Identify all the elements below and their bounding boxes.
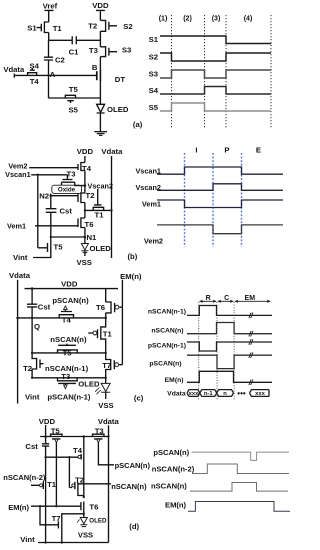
svg-text:C: C (224, 295, 229, 302)
svg-text:T7: T7 (52, 514, 61, 523)
OLED diode (a) (97, 104, 105, 131)
waveform nSCAN(n-1) (187, 306, 272, 316)
phase dotted line 1 (172, 15, 272, 128)
blue dotted line P start (212, 153, 214, 247)
T5 row wire (49, 97, 101, 99)
transistor T4 (28, 69, 37, 76)
Vdata terminal tick (13, 74, 15, 78)
waveform nSCAN(n) (d) (190, 483, 288, 492)
svg-text:OLED: OLED (107, 105, 129, 114)
waveform pSCAN(n) (187, 355, 272, 368)
svg-text:E: E (256, 146, 261, 155)
waveform Vscan1 (157, 167, 283, 174)
svg-text:VDD: VDD (39, 417, 56, 426)
junction bottom wire T1 (44, 541, 46, 543)
junction T1 left (84, 209, 86, 211)
svg-text:T1: T1 (53, 24, 63, 33)
transistor T2 (c) (32, 353, 43, 378)
N1 row wire (51, 236, 85, 238)
left branch Q to T5 row (31, 318, 33, 353)
junction T5 row right (105, 352, 107, 354)
svg-text:Cst: Cst (25, 442, 38, 451)
junction bottom wire T7 (61, 541, 63, 543)
svg-text:Cst: Cst (60, 206, 73, 215)
wire OLED to VSS (c) (105, 392, 107, 399)
ground symbol (94, 132, 107, 136)
drive transistor DT (99, 70, 101, 81)
svg-text:nSCAN(n): nSCAN(n) (151, 482, 187, 491)
waveform S3 (160, 70, 271, 78)
waveform EM(n) (d) (188, 502, 290, 512)
labels circuit (a) (3, 1, 142, 129)
PMOS bubble T1 (d) (40, 484, 43, 487)
EM(n) rail (c) (121, 280, 123, 365)
svg-text:VDD: VDD (61, 279, 78, 288)
transistor T7 (c) (106, 353, 123, 378)
svg-text:C1: C1 (69, 47, 80, 56)
svg-text:VDD: VDD (77, 147, 94, 156)
OLED light arrows (c) (95, 388, 101, 395)
transistor T5 (d) (51, 434, 63, 439)
svg-text:EM(n): EM(n) (120, 272, 142, 281)
svg-text:Vscan2: Vscan2 (88, 181, 114, 190)
wire OLED top (c) (105, 378, 107, 384)
wire T4 to Vscan2 node (84, 171, 86, 194)
dotted line EM start (233, 302, 235, 401)
break squiggle EM(n) (249, 380, 253, 386)
svg-text:VSS: VSS (77, 258, 92, 267)
svg-text:I: I (195, 146, 197, 155)
transistor T1 (d) (31, 482, 46, 543)
transistor T3 (100, 40, 117, 56)
wire T1 row to T6 (84, 210, 86, 218)
svg-text:nSCAN(n): nSCAN(n) (50, 335, 87, 344)
break squiggle nSCAN(n) (249, 331, 253, 337)
svg-text:Vdata: Vdata (9, 271, 31, 280)
wire N2 to Cst (50, 196, 52, 209)
break squiggle nSCAN(n-1) (249, 313, 253, 319)
phase dotted line 4 (270, 15, 272, 128)
transistor T6 (c) (106, 289, 123, 318)
junction top wire Vdata (107, 435, 109, 437)
svg-text:(c): (c) (134, 394, 144, 403)
wire node B (99, 57, 101, 70)
transistor T4 (c) (59, 310, 73, 318)
svg-text:Vref: Vref (43, 1, 58, 10)
OLED diode (b) (81, 244, 88, 253)
svg-text:EM: EM (245, 295, 256, 302)
svg-text:T2: T2 (23, 364, 32, 373)
svg-text:T4: T4 (30, 77, 40, 86)
PMOS triangle bubble T3 (d) (97, 439, 100, 442)
PMOS triangle bubble T4 (c) (64, 306, 68, 310)
svg-text:T5: T5 (54, 243, 64, 252)
EM(n) row wire (31, 505, 81, 507)
svg-text:VSS: VSS (78, 530, 93, 539)
junction Cst-Q (31, 317, 33, 319)
transistor T2 (b) (51, 193, 85, 203)
svg-text:T2: T2 (86, 191, 95, 200)
waveform S2 (160, 53, 271, 61)
svg-text:N1: N1 (87, 233, 98, 242)
junction Q-right branch (104, 317, 107, 320)
junction VDD-Cst (c) (31, 287, 34, 290)
svg-text:T3: T3 (95, 426, 104, 435)
svg-text:xxx: xxx (189, 391, 199, 397)
PMOS bubble T7 (c) (115, 363, 119, 367)
svg-text:(b): (b) (128, 252, 138, 261)
bottom Vint wire (38, 542, 109, 544)
svg-text:T2: T2 (75, 476, 84, 485)
svg-text:S4: S4 (29, 61, 39, 70)
svg-text:nSCAN(n): nSCAN(n) (111, 482, 147, 491)
svg-text:(2): (2) (183, 16, 192, 23)
svg-text:T5: T5 (63, 348, 73, 357)
capacitor C2 (44, 57, 53, 60)
VDD power terminal (a) (96, 10, 105, 20)
wire VDD line to T1 (45, 457, 47, 481)
junction EM row T7 (39, 505, 41, 507)
svg-text:Vem2: Vem2 (144, 237, 163, 246)
wire C1 to node Y (76, 39, 100, 41)
junction T5 row left (31, 352, 33, 354)
svg-text:Vdata: Vdata (98, 417, 120, 426)
T4 gate to T2 gate vertical (69, 457, 72, 487)
svg-text:Oxide: Oxide (58, 186, 76, 193)
junction dots (d) (39, 435, 110, 544)
svg-text:S3: S3 (149, 70, 158, 79)
svg-text:T2: T2 (88, 22, 97, 31)
T1 row wire (85, 209, 112, 211)
svg-text:EM(n): EM(n) (165, 377, 184, 384)
node X wire to C1 (49, 39, 72, 41)
waveform nSCAN(n) (187, 323, 272, 334)
T5 row wire (c) (32, 352, 106, 354)
Vref power terminal (45, 10, 54, 22)
transistor T3 (d) (93, 434, 105, 439)
svg-text:T4: T4 (73, 446, 83, 455)
junction OLED top (d) (83, 513, 85, 515)
junction N1 (84, 236, 87, 239)
PMOS triangle bubble T5 (d) (55, 439, 58, 442)
svg-text:T1: T1 (47, 480, 57, 489)
junction T3 row right OLED (105, 377, 107, 379)
PMOS bubble T2 (d) (72, 484, 75, 487)
junction T4 gate (68, 456, 70, 458)
svg-text:S2: S2 (123, 22, 132, 31)
svg-text:Vem1: Vem1 (142, 200, 161, 209)
wire Cst to N1 row (50, 212, 52, 237)
junction dots (c) (16, 287, 107, 379)
svg-text:T7: T7 (102, 361, 111, 370)
waveform EM(n) (c) (187, 371, 272, 382)
svg-text:OLED: OLED (78, 380, 100, 389)
svg-text:Vdata: Vdata (101, 147, 123, 156)
junction Vdata-Q (16, 317, 19, 320)
svg-text:VDD: VDD (92, 1, 109, 10)
Vscan1 vertical branch to T5 gate (38, 175, 48, 248)
svg-text:T4: T4 (82, 164, 92, 173)
transistor T1 (c) (88, 318, 106, 353)
wire OLED to VSS (b) (84, 251, 86, 257)
transistor T2 (100, 20, 117, 40)
svg-text:EM(n): EM(n) (8, 503, 29, 512)
svg-text:A: A (50, 70, 56, 79)
svg-text:Q: Q (34, 322, 40, 331)
waveform pSCAN(n) (d) (192, 452, 289, 460)
junction T2 bottom (83, 496, 85, 498)
svg-text:Vem1: Vem1 (7, 222, 26, 231)
svg-text:S1: S1 (27, 23, 37, 32)
T7 gate branch (40, 506, 58, 525)
Q row wire (18, 317, 106, 319)
svg-text:T3: T3 (61, 372, 70, 381)
svg-text:(3): (3) (212, 16, 221, 23)
svg-text:nSCAN(n-2): nSCAN(n-2) (152, 464, 195, 473)
T3 gate wire to pSCAN(n) (98, 442, 114, 464)
transistor T6 (d) (81, 502, 84, 516)
svg-text:T6: T6 (85, 220, 94, 229)
junction N2 (50, 194, 53, 197)
junction dots (b) (37, 174, 113, 239)
transistor T5 (b) (48, 237, 51, 253)
svg-text:(1): (1) (159, 16, 168, 23)
svg-text:nSCAN(n): nSCAN(n) (151, 328, 183, 335)
junction EM row T5 gate (55, 505, 57, 507)
svg-text:Cst: Cst (38, 303, 51, 312)
svg-text:n-1: n-1 (204, 391, 213, 397)
waveform S4 (160, 87, 271, 95)
svg-text:T3: T3 (67, 170, 76, 179)
svg-text:S1: S1 (149, 35, 159, 44)
svg-text:pSCAN(n-1): pSCAN(n-1) (148, 343, 186, 350)
svg-text:•••: ••• (237, 389, 246, 398)
waveform Vem1 (157, 200, 283, 208)
svg-text:Vint: Vint (20, 535, 35, 544)
OLED diode (c) (95, 383, 110, 394)
dotted line C start (216, 302, 218, 401)
OLED light arrows (d) (77, 520, 80, 523)
svg-text:pSCAN(n): pSCAN(n) (52, 296, 89, 305)
svg-text:S5: S5 (68, 106, 78, 115)
arrow span EM (235, 300, 270, 302)
T5 gate wire down to EM row (55, 442, 57, 506)
junction T3 row left (31, 377, 33, 379)
svg-text:T1: T1 (95, 211, 105, 220)
node A junction dot (47, 74, 49, 76)
wire Cst to Q line (31, 307, 33, 318)
node A wire (14, 74, 97, 76)
svg-text:xxx: xxx (255, 391, 265, 397)
junction Vscan1 (37, 174, 39, 176)
blue dotted line E start (241, 153, 243, 247)
wire T6 to N1 (84, 228, 86, 244)
svg-text:n: n (223, 391, 227, 397)
blue dotted line I start (184, 153, 186, 247)
svg-text:(4): (4) (244, 16, 253, 23)
svg-text:VSS: VSS (98, 401, 113, 410)
transistor T5 (c) (58, 344, 78, 353)
waveform S1 (160, 36, 271, 44)
VDD rail (c) (25, 288, 119, 290)
junction Cst bottom row (44, 456, 46, 458)
svg-text:DT: DT (115, 75, 126, 84)
svg-text:Vint: Vint (13, 253, 28, 262)
svg-text:T6: T6 (96, 303, 105, 312)
svg-text:OLED: OLED (89, 518, 107, 525)
svg-text:nSCAN(n-2): nSCAN(n-2) (3, 473, 46, 482)
Vdata rail (d) (108, 425, 110, 542)
Vdata rail (c) (17, 280, 19, 404)
break squiggle pSCAN(n) (249, 352, 253, 358)
svg-text:pSCAN(n-1): pSCAN(n-1) (47, 392, 91, 401)
waveform Vscan2 (157, 184, 283, 191)
transistor T4 (d) (81, 437, 84, 498)
svg-text:S4: S4 (149, 86, 159, 95)
VDD wire (b) (84, 156, 86, 163)
svg-text:EM(n): EM(n) (165, 500, 187, 509)
junction T1 right Vdata (110, 209, 112, 211)
phase dotted line 2 (204, 15, 206, 128)
capacitor Cst (b) (46, 209, 57, 213)
capacitor C1 (72, 36, 76, 44)
svg-text:pSCAN(n): pSCAN(n) (153, 448, 189, 457)
Oxide annotation box (52, 185, 82, 193)
capacitor Cst (d) (42, 444, 49, 446)
svg-text:T4: T4 (62, 315, 72, 324)
svg-text:OLED: OLED (90, 244, 112, 253)
PMOS bubble T1 (c) (93, 331, 97, 335)
arrow span R (200, 300, 217, 302)
arrow span C (218, 300, 234, 302)
Vdata rail (b) (111, 156, 113, 258)
waveform nSCAN(n-2) (d) (192, 464, 289, 474)
transistor T5 (65, 95, 75, 103)
OLED top wire (d) (83, 514, 85, 518)
svg-text:T3: T3 (89, 46, 98, 55)
svg-text:pSCAN(n): pSCAN(n) (115, 461, 151, 470)
wire Cst to T4 gate row (45, 446, 47, 457)
T3 row wire (c) (32, 377, 106, 379)
svg-text:Vdata: Vdata (167, 391, 186, 398)
wire VDD to Cst (c) (31, 289, 33, 305)
svg-text:P: P (224, 146, 229, 155)
transistor T1 (37, 22, 49, 40)
svg-text:T6: T6 (89, 502, 98, 511)
svg-text:Vint: Vint (25, 392, 40, 401)
wire T2 to T1 row (84, 203, 86, 211)
Vdata data bus (c) (187, 390, 269, 397)
Vscan1 wire (31, 175, 67, 180)
transistor T7 (d) (58, 514, 83, 543)
transistor T3 (b) (51, 180, 85, 196)
waveform pSCAN(n-1) (187, 342, 272, 351)
waveform Vem2 (157, 225, 283, 234)
svg-text:Vscan1: Vscan1 (5, 170, 31, 179)
transistor T6 (b) (35, 218, 85, 228)
OLED diode (d) (77, 518, 87, 527)
svg-text:R: R (206, 295, 211, 302)
svg-text:T1: T1 (103, 329, 113, 338)
wire C2 to node A and down (48, 60, 50, 98)
svg-text:S5: S5 (149, 103, 159, 112)
capacitor C2 branch wire (48, 40, 50, 57)
transistor T3 (c) (58, 378, 78, 385)
svg-text:(a): (a) (133, 120, 143, 129)
svg-text:B: B (92, 63, 98, 72)
svg-text:N2: N2 (39, 192, 49, 201)
break squiggle pSCAN(n-1) (249, 339, 253, 345)
phase dotted line 3 (225, 15, 227, 128)
svg-text:(d): (d) (129, 522, 139, 531)
wire T5 to Vint (33, 253, 51, 258)
waveform S5 (160, 103, 271, 111)
junction T4 top wire (83, 435, 86, 438)
svg-text:pSCAN(n): pSCAN(n) (149, 360, 181, 367)
junction Cst bottom (50, 236, 52, 238)
wire DT source to OLED (99, 81, 101, 104)
transistor T1 (b) (93, 189, 103, 210)
junction Vscan2 node (84, 184, 87, 187)
transistor T2 (d) (75, 482, 111, 496)
transistor T4 (b) (29, 163, 85, 171)
PMOS bubble T6 (c) (115, 305, 119, 309)
PMOS triangle bubble T3 (c) (64, 385, 68, 389)
junction VDD top wire (44, 435, 47, 438)
svg-text:S2: S2 (149, 53, 158, 62)
svg-text:T5: T5 (69, 85, 79, 94)
PMOS bubble T4 (d) (78, 455, 81, 458)
top wire (d) (40, 436, 108, 438)
svg-text:Vdata: Vdata (3, 65, 25, 74)
dotted line R start (198, 302, 200, 401)
svg-text:S3: S3 (122, 46, 131, 55)
T4 gate row wire (46, 456, 78, 458)
svg-text:T5: T5 (51, 426, 61, 435)
VDD line (d) (45, 425, 47, 443)
capacitor Cst (c) (27, 304, 37, 307)
svg-text:nSCAN(n-1): nSCAN(n-1) (148, 309, 186, 316)
svg-text:C2: C2 (55, 56, 65, 65)
